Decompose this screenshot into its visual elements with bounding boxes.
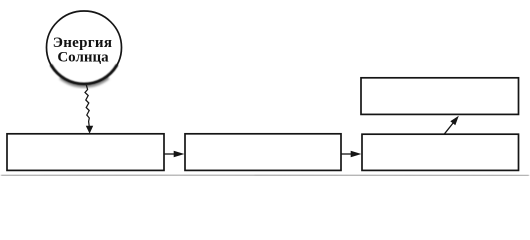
- arrow box1 -> box2: [165, 153, 176, 155]
- circle thick bottom arc: [51, 66, 116, 84]
- box 4 (top right): [361, 78, 519, 115]
- scan artifact gray line: [1, 174, 529, 177]
- box 3 (bottom right): [362, 134, 519, 170]
- circle "Энергия Солнца": [47, 11, 122, 84]
- circle shadow: [60, 78, 108, 86]
- arrow box2 -> box3: [342, 153, 353, 155]
- box 2 (bottom middle): [185, 134, 341, 171]
- diagonal arrow box3 -> box4: [444, 123, 453, 135]
- zigzag arrowhead: [86, 126, 93, 134]
- svg-text:Солнца: Солнца: [57, 49, 109, 65]
- box 1 (bottom left): [7, 134, 164, 171]
- zigzag arrow from circle to box 1: [85, 85, 89, 127]
